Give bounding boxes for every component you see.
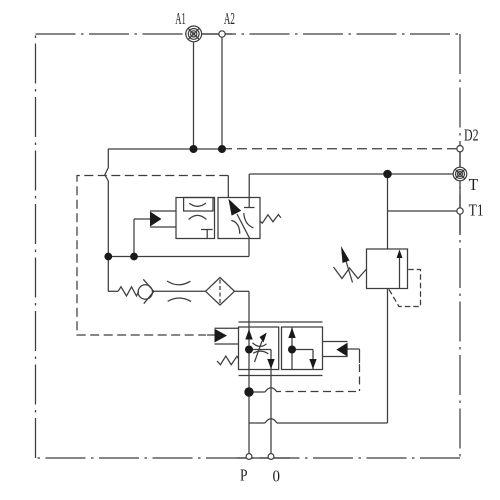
svg-text:D2: D2 bbox=[464, 126, 479, 145]
svg-text:P: P bbox=[240, 466, 248, 485]
svg-text:A1: A1 bbox=[175, 9, 186, 28]
svg-text:0: 0 bbox=[273, 467, 281, 486]
svg-text:T1: T1 bbox=[469, 201, 484, 220]
svg-text:A2: A2 bbox=[224, 9, 235, 28]
svg-text:T: T bbox=[469, 175, 479, 194]
